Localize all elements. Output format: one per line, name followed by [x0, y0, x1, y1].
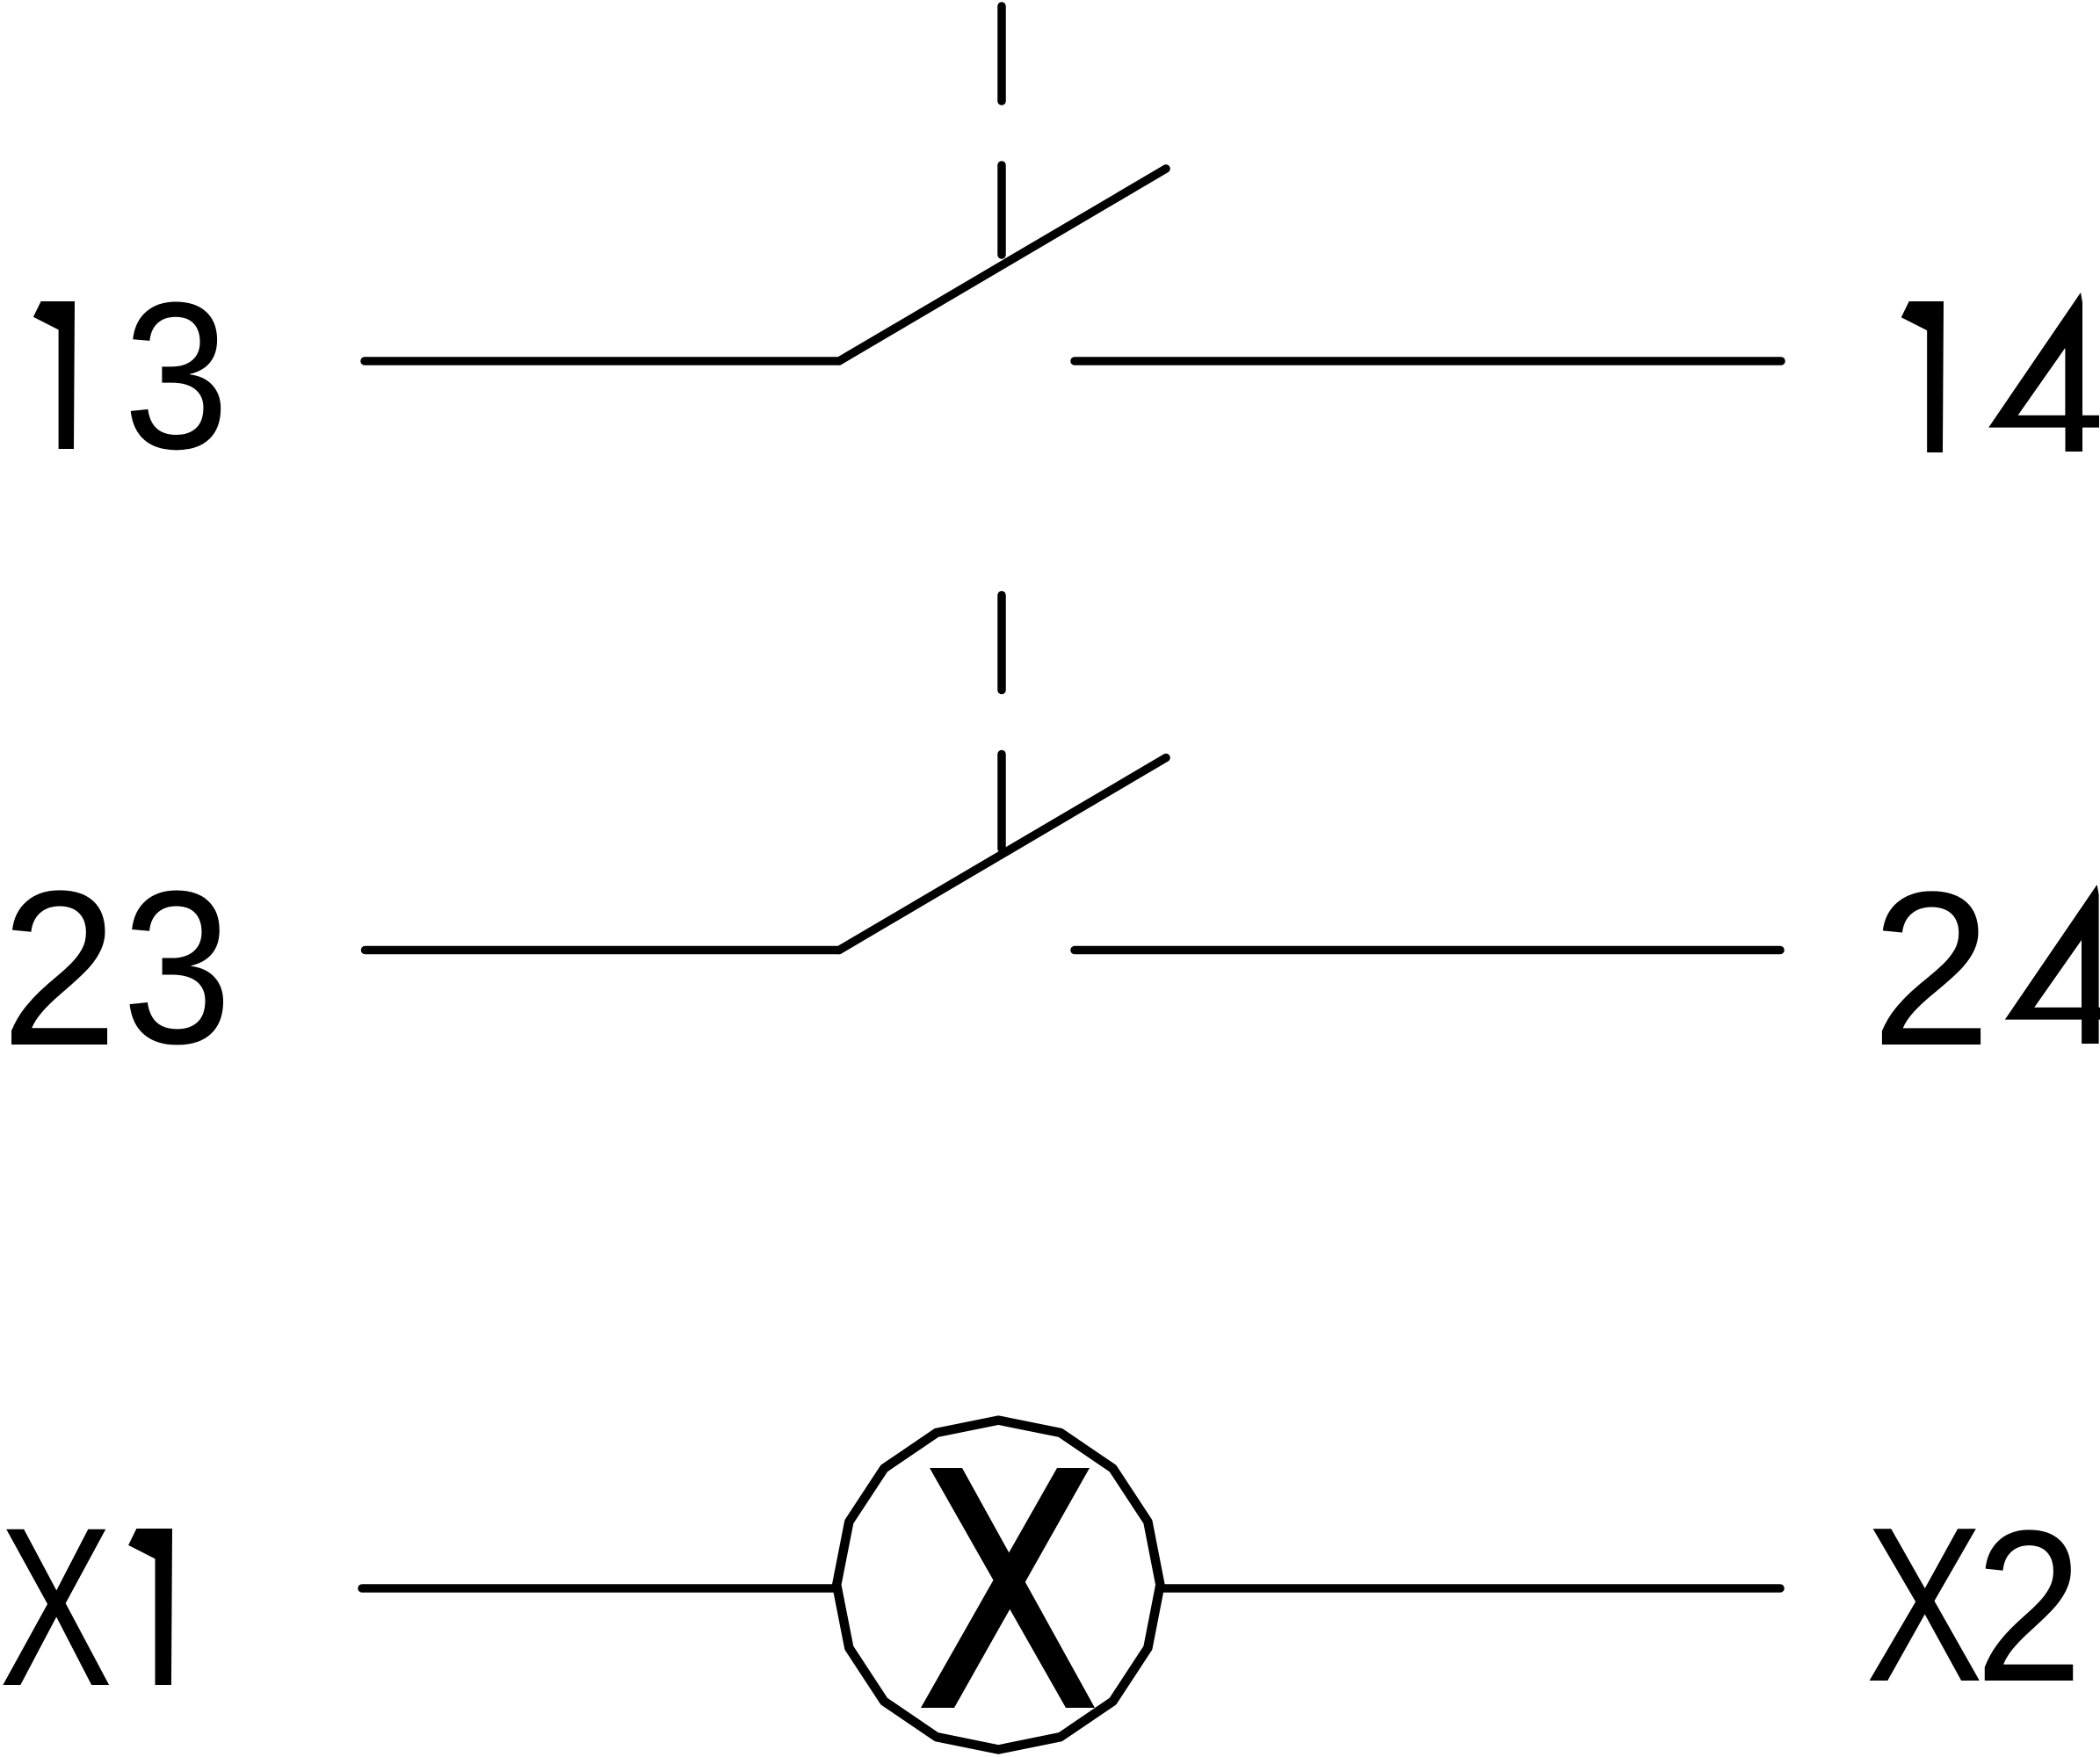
svg-text:2: 2	[1, 845, 118, 1092]
wire 24 right lead	[1075, 946, 1780, 955]
svg-text:3: 3	[124, 258, 229, 493]
wire X2 right lead	[1160, 1584, 1780, 1593]
wire 13 left lead	[365, 357, 839, 365]
node 13 terminal label digit 1	[33, 301, 75, 449]
node 24 terminal label digit 4 (clipped at right edge)	[2005, 885, 2100, 1044]
node 14 terminal label digit 1	[1901, 301, 1944, 452]
lamp H1 cross bar (top-right to bottom-left)	[921, 1468, 1090, 1708]
contact S2 actuator dashed link upper dash	[997, 596, 1006, 691]
wire 14 right lead	[1075, 357, 1781, 365]
svg-text:X: X	[1865, 1482, 1983, 1728]
node X1 terminal label digit 1	[128, 1529, 172, 1685]
node 14 terminal label digit 4	[1988, 293, 2099, 452]
svg-text:X: X	[0, 1480, 112, 1733]
svg-text:3: 3	[122, 845, 232, 1089]
contact S1 NO moving blade	[839, 169, 1166, 361]
contact S1 actuator dashed link upper dash	[997, 6, 1006, 101]
lamp H1 body (16-gon circle)	[836, 1421, 1160, 1750]
svg-text:2: 2	[1872, 846, 1992, 1091]
svg-text:2: 2	[1975, 1486, 2083, 1727]
contact S2 actuator dashed link lower dash	[997, 755, 1006, 850]
contact S2 NO moving blade	[839, 758, 1166, 951]
lamp H1 cross bar (top-left to bottom-right)	[930, 1468, 1095, 1708]
contact S1 actuator dashed link lower dash	[997, 165, 1006, 255]
wire X1 left lead	[362, 1584, 837, 1593]
wire 23 left lead	[366, 946, 840, 955]
